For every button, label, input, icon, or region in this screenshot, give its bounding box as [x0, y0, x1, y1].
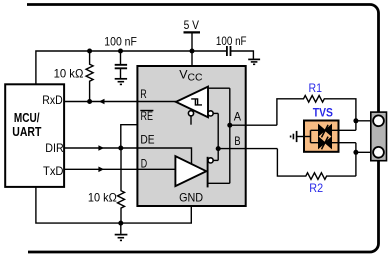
wire receiver minus — [213, 112, 218, 114]
wire TVS row2 to bus B — [339, 142, 356, 144]
wire TVS row1 to bus A — [339, 129, 356, 131]
resistor 10k pullup — [54, 51, 94, 102]
capacitor C1 100nF — [104, 37, 137, 78]
wire to connector pin B — [356, 151, 373, 153]
resistor R2 — [277, 143, 356, 195]
svg-text:RxD: RxD — [42, 93, 62, 107]
wire TVS ground tap — [297, 136, 311, 138]
arrow toward DE — [98, 145, 104, 151]
receiver amp — [176, 87, 208, 118]
wire RE bubble down — [190, 116, 192, 125]
connector J1 — [371, 112, 387, 161]
wire TxD to D — [64, 168, 137, 170]
arrow toward D — [98, 167, 104, 173]
supply 5V — [184, 18, 201, 66]
node bus B — [353, 150, 358, 155]
connector pin A — [373, 115, 384, 126]
svg-text:R2: R2 — [309, 181, 323, 195]
wire DE enable to driver — [137, 148, 191, 164]
wire A net vertical — [229, 88, 231, 183]
wire RE to DE junction — [121, 125, 138, 148]
svg-text:RE: RE — [141, 109, 154, 123]
svg-text:TxD: TxD — [43, 164, 64, 178]
wire D inside — [137, 168, 175, 170]
svg-text:DIR: DIR — [45, 141, 63, 155]
svg-text:B: B — [234, 134, 240, 148]
ground under C2 — [248, 59, 260, 64]
node pullup top — [87, 49, 92, 54]
wire driver output to A net — [208, 182, 230, 184]
node C1 top — [118, 49, 123, 54]
ground TVS (rotated) — [291, 131, 297, 142]
connector pin B — [373, 147, 384, 158]
node ground rail — [118, 221, 123, 226]
svg-text:10 kΩ: 10 kΩ — [54, 66, 84, 80]
wire RxD to R — [64, 101, 137, 103]
TVS left bar — [310, 130, 312, 142]
wire DIR to DE — [64, 147, 137, 149]
resistor 10k pulldown — [88, 148, 125, 223]
wire MCU ground return — [36, 187, 191, 223]
wire A out — [230, 124, 277, 126]
bubble driver inverting — [208, 158, 213, 163]
TVS diode row 2 — [311, 137, 339, 150]
svg-text:10 kΩ: 10 kΩ — [88, 191, 117, 205]
MCU/UART box — [5, 84, 64, 187]
svg-text:TVS: TVS — [313, 107, 333, 119]
node bus A — [353, 118, 358, 123]
svg-text:R: R — [140, 87, 147, 101]
TVS diode row 1 — [311, 125, 339, 138]
wire top rail — [36, 51, 227, 84]
svg-text:5 V: 5 V — [184, 18, 200, 32]
wire R inside — [137, 101, 176, 103]
transceiver U1 box — [137, 66, 245, 206]
svg-text:DE: DE — [140, 132, 154, 146]
resistor R1 — [277, 81, 356, 130]
capacitor C2 100nF — [216, 36, 254, 59]
node DE — [118, 146, 123, 151]
wire B net vertical — [217, 113, 219, 160]
wire driver bubble — [213, 159, 218, 161]
svg-text:A: A — [234, 109, 241, 123]
arrow toward MCU — [99, 99, 105, 105]
driver amp — [175, 156, 206, 186]
wire receiver plus input — [208, 87, 230, 89]
node RxD — [87, 99, 92, 104]
bubble RE enable — [188, 111, 193, 116]
node 5V rail — [190, 49, 195, 54]
wire B out — [218, 148, 277, 150]
node A internal — [227, 123, 232, 128]
ground under C1 — [115, 79, 127, 85]
svg-text:D: D — [141, 157, 147, 171]
driver output bar — [207, 157, 209, 188]
svg-text:100 nF: 100 nF — [104, 37, 137, 49]
TVS box — [304, 121, 339, 152]
node B internal — [216, 146, 221, 151]
hysteresis mark — [191, 99, 202, 105]
wire to connector pin A — [356, 120, 373, 122]
svg-text:R1: R1 — [309, 81, 323, 95]
svg-text:UART: UART — [12, 124, 41, 139]
ground at bottom — [115, 223, 128, 240]
svg-text:GND: GND — [179, 191, 203, 205]
bubble receiver minus — [208, 111, 213, 116]
